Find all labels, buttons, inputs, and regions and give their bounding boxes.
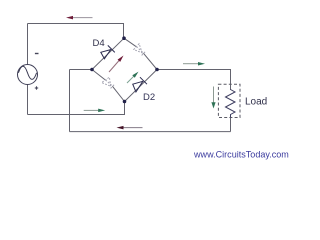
diode D3 (dashed, left-bottom edge) [102,77,115,88]
current arrow bridge to load (green, pointing right) [183,62,205,65]
wire AC source top lead [27,24,29,65]
diode D4 (conducting, left-top edge) [101,45,115,58]
wire bridge edge top-right [124,38,136,47]
current arrow through D4 (red, up-right) [109,56,124,73]
wire AC source bottom lead [27,85,29,115]
diode D2 (conducting, bottom-right edge) [133,77,147,92]
load dashed box [218,84,240,117]
wire bridge edge left-bottom [92,70,106,81]
svg-text:D2: D2 [143,92,155,103]
AC plus sign [35,86,38,89]
current arrow bottom (dark red, pointing left) [117,126,143,130]
AC source sine [18,66,36,79]
wire left vertical [69,70,71,132]
current arrow through load (green, pointing down) [211,87,215,109]
node left [90,68,94,72]
AC source V1 circle [18,65,38,85]
node top [122,36,126,40]
wire AC plus to bridge bottom node [28,102,125,115]
wire bottom horizontal to load [70,131,231,133]
current arrow top (red, pointing left) [66,16,93,20]
wire bridge edge bottom-right [125,70,158,102]
wire top horizontal from AC source to bridge [28,24,124,39]
wire right node to load top [157,70,231,91]
wire load bottom lead [230,118,232,132]
svg-text:D4: D4 [93,38,105,49]
svg-text:www.CircuitsToday.com: www.CircuitsToday.com [193,149,289,159]
current arrow AC+ to bridge (green, pointing right) [84,109,106,113]
node bottom [123,100,127,104]
diode D1 (dashed, top-right edge) [134,44,146,56]
node right [155,68,159,72]
wire bridge edge left-top [92,38,124,69]
resistor RL zigzag [226,90,236,118]
wire left node stub [70,69,93,71]
AC minus sign [35,53,39,54]
svg-text:Load: Load [245,97,267,108]
current arrow through D2 (green, up-right) [127,72,139,83]
